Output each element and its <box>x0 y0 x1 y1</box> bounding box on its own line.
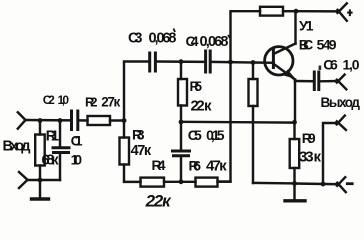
node A <box>122 118 127 123</box>
svg-text:22к: 22к <box>145 192 172 210</box>
svg-text:1,0: 1,0 <box>58 93 70 107</box>
svg-text:68к: 68к <box>42 153 60 169</box>
svg-text:47к: 47к <box>131 143 152 159</box>
svg-text:R2: R2 <box>85 95 98 110</box>
wire input bottom rail <box>28 179 60 181</box>
svg-text:1,0: 1,0 <box>343 56 360 72</box>
capacitor C3 <box>150 53 156 71</box>
svg-text:22 к: 22 к <box>191 98 212 115</box>
ground right <box>285 184 305 201</box>
svg-text:R6: R6 <box>189 158 202 174</box>
wire ground rail to minus terminal <box>295 182 339 185</box>
minus sign <box>347 182 352 185</box>
capacitor C5 <box>173 122 190 182</box>
wire C2 to R2 <box>80 119 88 122</box>
wire collector up <box>294 11 296 43</box>
svg-text:549: 549 <box>317 36 337 52</box>
svg-text:C1: C1 <box>71 133 83 149</box>
resistor R4 <box>141 178 165 187</box>
svg-text:10: 10 <box>71 152 83 168</box>
node C1 top <box>58 118 63 123</box>
svg-text:R9: R9 <box>302 130 316 146</box>
wire node A up to C3 level <box>124 62 149 121</box>
svg-text:У1: У1 <box>299 18 314 34</box>
svg-text:C3: C3 <box>128 31 143 47</box>
node base-R7 <box>251 60 256 65</box>
wire C4 to base <box>212 61 274 64</box>
svg-text:0,068: 0,068 <box>200 34 229 50</box>
svg-text:27к: 27к <box>101 95 120 110</box>
terminal plus arrow <box>338 3 347 20</box>
wire emitter to C6 <box>295 80 314 83</box>
wire to plus terminal <box>296 10 339 13</box>
resistor R2 <box>88 116 111 125</box>
node C3-C4-R5 <box>179 59 184 64</box>
wire x230 down to R6 <box>218 62 231 182</box>
resistor R6 <box>196 178 218 187</box>
label C4 tick <box>228 35 230 38</box>
svg-text:R3: R3 <box>132 127 145 143</box>
capacitor C6 <box>314 72 319 90</box>
wire output bracket <box>323 123 338 184</box>
svg-text:R5: R5 <box>190 79 203 94</box>
svg-text:R4: R4 <box>152 157 166 173</box>
output terminal upper <box>337 75 347 90</box>
wire C3 to C4 <box>157 60 205 63</box>
node emitter-R9-feedback <box>292 120 297 125</box>
wire R7 bottom to ground rail <box>253 182 295 185</box>
wire R8 vertical line (top rail to R6) <box>231 11 261 62</box>
svg-text:C5: C5 <box>188 127 202 143</box>
resistor R3 <box>120 121 141 182</box>
ground input <box>32 180 49 199</box>
wire emitter down <box>294 80 296 123</box>
svg-text:C2: C2 <box>43 93 55 107</box>
resistor R1 <box>35 121 45 181</box>
resistor R8 <box>260 7 283 16</box>
svg-text:Выход: Выход <box>321 95 361 110</box>
output terminal lower <box>337 116 346 130</box>
node collector-supply <box>294 9 299 14</box>
node R1 top <box>38 118 43 123</box>
svg-text:C4: C4 <box>186 33 199 49</box>
transistor U1 <box>265 44 296 80</box>
wire R4 to C5 node to R6 <box>164 181 196 183</box>
node C5-R4-R6 <box>179 179 184 184</box>
svg-text:Вход: Вход <box>3 139 31 155</box>
input terminal lower <box>19 172 28 188</box>
resistor R9 <box>290 122 300 183</box>
svg-text:BC: BC <box>299 36 314 52</box>
svg-text:R1: R1 <box>46 128 60 145</box>
wire R2 to node A <box>110 119 125 121</box>
node ground input <box>38 178 43 183</box>
capacitor C1 <box>53 121 69 181</box>
capacitor C2 <box>72 111 78 130</box>
wire C6 to output <box>320 80 338 83</box>
wire R6 to x230 line <box>218 180 231 182</box>
feedback line to emitter <box>181 121 295 124</box>
node R5-C5-feedback <box>179 120 184 125</box>
svg-text:0,068: 0,068 <box>149 31 177 47</box>
svg-text:47к: 47к <box>206 158 227 175</box>
svg-text:0,15: 0,15 <box>206 127 225 143</box>
wire input top <box>25 119 71 122</box>
terminal minus arrow <box>337 177 346 192</box>
label plus <box>347 9 352 16</box>
resistor R7 <box>249 62 258 183</box>
capacitor C4 <box>206 51 211 72</box>
node base-R8 line <box>228 60 233 65</box>
wire R8 to plus junction <box>283 10 296 12</box>
node output bracket <box>321 182 326 187</box>
svg-text:C6: C6 <box>323 56 338 72</box>
svg-text:33 к: 33 к <box>299 148 321 165</box>
node R9 bottom <box>292 181 297 186</box>
resistor R5 <box>178 62 187 122</box>
label C3 tick <box>174 29 176 33</box>
scan artifact dot before C6 <box>319 66 322 71</box>
input terminal upper <box>18 112 26 128</box>
